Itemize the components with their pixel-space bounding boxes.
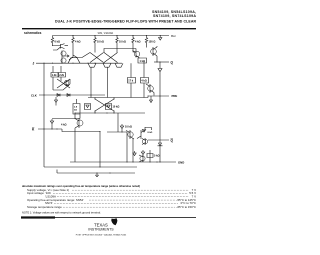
resistor R12 lead bbox=[141, 62, 149, 98]
diode D5 bbox=[158, 140, 163, 162]
leader dots 6 bbox=[63, 206, 175, 208]
leader dots 4 bbox=[89, 199, 175, 201]
svg-text:17 k: 17 k bbox=[128, 80, 133, 83]
svg-text:K: K bbox=[32, 127, 35, 131]
svg-text:DUAL J-K POSITIVE-EDGE-TRIGGER: DUAL J-K POSITIVE-EDGE-TRIGGERED FLIP-FL… bbox=[55, 20, 196, 24]
leader dots 5 bbox=[54, 202, 178, 204]
transistor Q8 bbox=[146, 84, 154, 96]
resistor R1 bbox=[51, 36, 53, 47]
transistor Q6 circle bbox=[134, 51, 140, 57]
svg-text:150 Ω: 150 Ω bbox=[149, 41, 156, 44]
svg-text:SN74109, SN74LS109A: SN74109, SN74LS109A bbox=[153, 14, 196, 18]
leader dots 2 bbox=[53, 192, 188, 194]
svg-text:4 kΩ: 4 kΩ bbox=[135, 41, 140, 44]
svg-text:Q: Q bbox=[171, 61, 174, 65]
svg-text:5 kΩ: 5 kΩ bbox=[154, 155, 159, 158]
svg-text:10 kΩ: 10 kΩ bbox=[97, 41, 104, 44]
svg-text:Storage temperature range: Storage temperature range bbox=[27, 205, 62, 209]
transistor Q1 circle bbox=[61, 51, 66, 56]
wire clk row bbox=[39, 94, 105, 96]
transistor Q9 circle bbox=[77, 120, 83, 126]
svg-text:INSTRUMENTS: INSTRUMENTS bbox=[88, 228, 114, 232]
svg-text:Operating free-air temperature: Operating free-air temperature range: SN… bbox=[27, 198, 84, 202]
wire K input row bbox=[38, 128, 62, 130]
vcc symbol 5 bbox=[120, 124, 123, 132]
vcc symbol 7 bbox=[141, 150, 144, 155]
resistor R11 lead bbox=[128, 63, 136, 97]
svg-text:–65°C to 150°C: –65°C to 150°C bbox=[176, 205, 196, 209]
leader dots 3 bbox=[57, 196, 189, 198]
svg-text:2.8: 2.8 bbox=[74, 107, 78, 109]
resistor R10 bbox=[147, 150, 153, 162]
resistor R9 box bbox=[138, 58, 147, 63]
wire PRE input bbox=[148, 96, 169, 103]
footer thick bar bbox=[21, 216, 55, 218]
wire J input bbox=[36, 62, 122, 64]
vcc rail bbox=[53, 35, 170, 37]
transistor Q11 bbox=[133, 127, 145, 162]
wire crossing X3 bbox=[95, 99, 114, 111]
svg-text:6 kΩ: 6 kΩ bbox=[55, 41, 60, 44]
vcc symbol 8 bbox=[133, 151, 136, 156]
wire crossing X4 bbox=[57, 79, 70, 88]
transistor Q10 bbox=[126, 130, 134, 162]
wire X2 to right cluster bbox=[104, 49, 136, 53]
svg-text:kΩ: kΩ bbox=[74, 110, 77, 112]
diode D2 bbox=[67, 94, 70, 97]
wire X3 entries bbox=[95, 98, 114, 114]
wire gnd rail 2 bbox=[57, 170, 135, 174]
svg-text:4 kΩ: 4 kΩ bbox=[75, 41, 80, 44]
svg-text:VCC: VCC bbox=[171, 34, 176, 38]
wire K to mid bbox=[62, 129, 100, 167]
wire Q3 leg bbox=[90, 67, 92, 97]
wire small left bbox=[52, 114, 80, 119]
footer rule bbox=[55, 216, 196, 219]
svg-text:8 kΩ: 8 kΩ bbox=[148, 132, 153, 134]
svg-text:GND: GND bbox=[178, 161, 184, 165]
transistor Q12 circle bbox=[140, 156, 145, 161]
resistor R2 bbox=[72, 36, 74, 47]
svg-text:Q: Q bbox=[171, 139, 174, 143]
wire mid right bbox=[107, 131, 127, 133]
svg-text:2.2k: 2.2k bbox=[59, 74, 64, 77]
svg-text:J: J bbox=[33, 62, 35, 66]
diode D1 bbox=[57, 94, 60, 97]
svg-text:’109, ’LS109A: ’109, ’LS109A bbox=[97, 31, 113, 35]
svg-text:1 kΩ: 1 kΩ bbox=[140, 60, 145, 63]
svg-text:PRE: PRE bbox=[172, 94, 178, 98]
transistor Q7 circle bbox=[151, 49, 157, 55]
wire vcc6 loop bbox=[145, 128, 152, 131]
wire gnd rail bbox=[70, 161, 176, 163]
transistor Q13 circle bbox=[64, 81, 69, 86]
transistor Q14 circle bbox=[142, 139, 147, 144]
transistor Q5 bbox=[115, 63, 123, 67]
vcc symbol bbox=[159, 36, 162, 41]
vcc symbol 4 bbox=[50, 119, 53, 129]
TI logo map symbol bbox=[111, 218, 117, 225]
wire mid left return bbox=[53, 79, 70, 90]
transistor Q4 bbox=[103, 63, 111, 67]
transistor Q12 bbox=[139, 155, 143, 162]
ground symbol bbox=[95, 173, 99, 177]
wire Qbar stub bbox=[148, 96, 169, 140]
wire X entries bbox=[82, 46, 117, 58]
svg-text:POST OFFICE BOX 655303 • DALLA: POST OFFICE BOX 655303 • DALLAS, TEXAS 7… bbox=[76, 233, 127, 236]
svg-text:10 kΩ: 10 kΩ bbox=[113, 106, 120, 109]
wire mid bus bbox=[75, 112, 145, 114]
transistor Q1 leg bbox=[62, 51, 69, 64]
svg-text:10 kΩ: 10 kΩ bbox=[125, 126, 132, 129]
transistor Q6 bbox=[133, 46, 140, 58]
svg-text:schematics: schematics bbox=[24, 31, 42, 35]
svg-text:NOTE 1: Voltage values are wi: NOTE 1: Voltage values are with respect … bbox=[22, 210, 101, 214]
resistor R8 bbox=[59, 66, 66, 81]
svg-text:CLK: CLK bbox=[31, 93, 37, 97]
svg-text:4 kΩ: 4 kΩ bbox=[61, 124, 66, 127]
wire clk vertical bbox=[43, 63, 45, 167]
resistor R4 bbox=[116, 36, 118, 47]
transistor Q3 bbox=[88, 63, 96, 67]
resistor R6 bbox=[145, 36, 147, 48]
transistor Q13 bbox=[66, 80, 69, 86]
resistor R5 bbox=[132, 36, 134, 47]
wire Q to diode bbox=[159, 62, 161, 69]
transistor Q9 bbox=[75, 113, 79, 162]
vcc symbol 6 bbox=[142, 130, 145, 133]
transistor Q2a house bbox=[68, 58, 80, 64]
vcc symbol 3 boxed bbox=[106, 104, 112, 110]
wire R1 to base bbox=[53, 45, 62, 48]
transistor Q1b circle bbox=[61, 58, 66, 63]
wire lower rail bbox=[44, 166, 137, 168]
wire crossing X2 bbox=[104, 53, 118, 63]
svg-text:10 kΩ: 10 kΩ bbox=[119, 41, 126, 44]
wire lower bus bbox=[88, 96, 148, 98]
transistor Q14 bbox=[142, 139, 146, 145]
wire crossing X1 bbox=[90, 53, 104, 63]
junction dots bbox=[72, 35, 73, 36]
header rule bbox=[22, 28, 196, 29]
transistor Q2 bbox=[69, 46, 82, 60]
svg-text:4 kΩ: 4 kΩ bbox=[141, 80, 146, 83]
resistor R3 bbox=[94, 36, 96, 47]
vcc symbol 2 boxed bbox=[85, 104, 91, 110]
wire right mid vertical bbox=[117, 113, 119, 132]
wire Q output bbox=[154, 61, 169, 63]
transistor Q10 circle bbox=[128, 132, 133, 137]
resistor R14 boxed bbox=[73, 99, 80, 114]
diode D3 clamp bbox=[55, 97, 58, 106]
transistor Q7 bbox=[153, 46, 157, 62]
resistor R7 bbox=[51, 66, 58, 90]
svg-text:1.2k: 1.2k bbox=[52, 74, 57, 77]
leader dots 1 bbox=[72, 189, 189, 191]
transistor Q1 bbox=[53, 44, 68, 50]
wire Q4 leg bbox=[107, 67, 109, 97]
diode D4 bbox=[158, 69, 162, 96]
transistor Q8 circle bbox=[148, 86, 154, 92]
